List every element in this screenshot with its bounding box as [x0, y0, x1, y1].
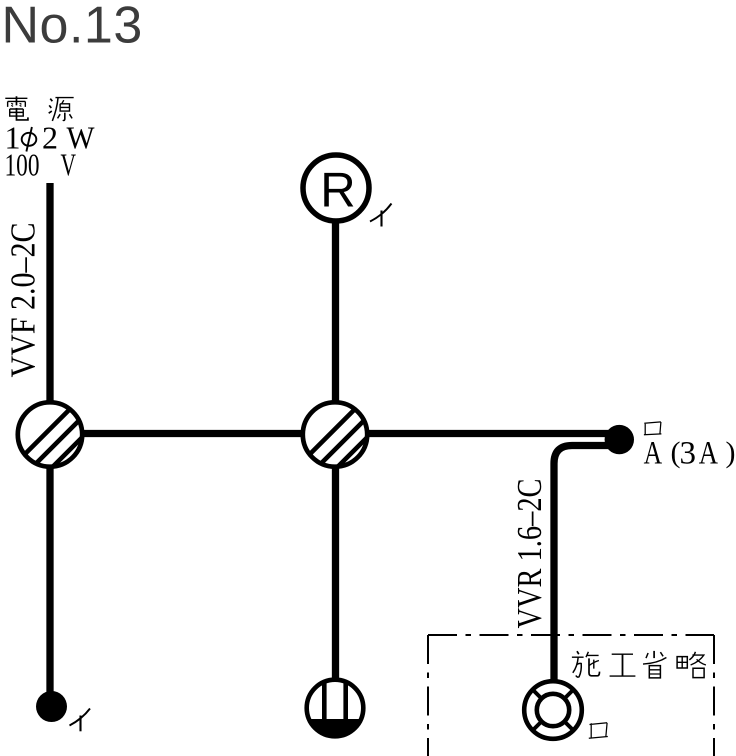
label katakana I at receptacle R: [370, 204, 392, 227]
junction box JB1 (VVF joint box): [9, 398, 122, 470]
switch S1 dot (3 A switch): [605, 425, 634, 454]
kanji RYAKU (abbreviate): [677, 652, 706, 678]
phi symbol of 1-phi-2W: [22, 127, 37, 152]
label katakana RO at pendant lamp L2: [589, 723, 608, 738]
power source label DENGEN (kanji, drawn paths): [5, 96, 73, 121]
kanji DEN (electric): [5, 96, 28, 120]
pendant lamp L2 in omitted area: [524, 681, 582, 739]
label katakana RO at switch S1: [644, 422, 662, 435]
lamp L1 dot (bottom-left): [36, 691, 67, 722]
junction box JB2 (VVF joint box): [294, 398, 407, 470]
construction-omitted dashed boundary box: [428, 635, 714, 756]
kanji SHI (carry out): [572, 651, 600, 677]
kanji GEN (source): [49, 98, 74, 121]
svg-text:No.13: No.13: [2, 0, 143, 55]
kanji SEI (omit): [643, 651, 666, 678]
ceiling rosette CL1 (hikkake ceiling, bottom middle): [307, 680, 364, 737]
wire: power source down through junction box JB1 to lamp L1: [46, 183, 53, 695]
wire: horizontal run JB1 to JB2 to switch S1: [50, 430, 615, 437]
svg-text:R: R: [320, 163, 355, 217]
svg-text:VVR 1.6–2C: VVR 1.6–2C: [510, 479, 549, 629]
label katakana I at lamp L1: [70, 709, 91, 732]
wire: switch S1 curving down to pendant lamp L2 (VVR run): [554, 446, 612, 686]
label SHIKOU-SHOURYAKU (construction omitted, kanji paths): [572, 651, 706, 678]
wire: receptacle R down through JB2 to ceiling rosette CL1: [332, 220, 339, 690]
lamp receptacle R (circle with letter R): [303, 155, 369, 221]
svg-text:VVF 2.0–2C: VVF 2.0–2C: [4, 223, 43, 378]
kanji KOU (work): [610, 654, 636, 676]
